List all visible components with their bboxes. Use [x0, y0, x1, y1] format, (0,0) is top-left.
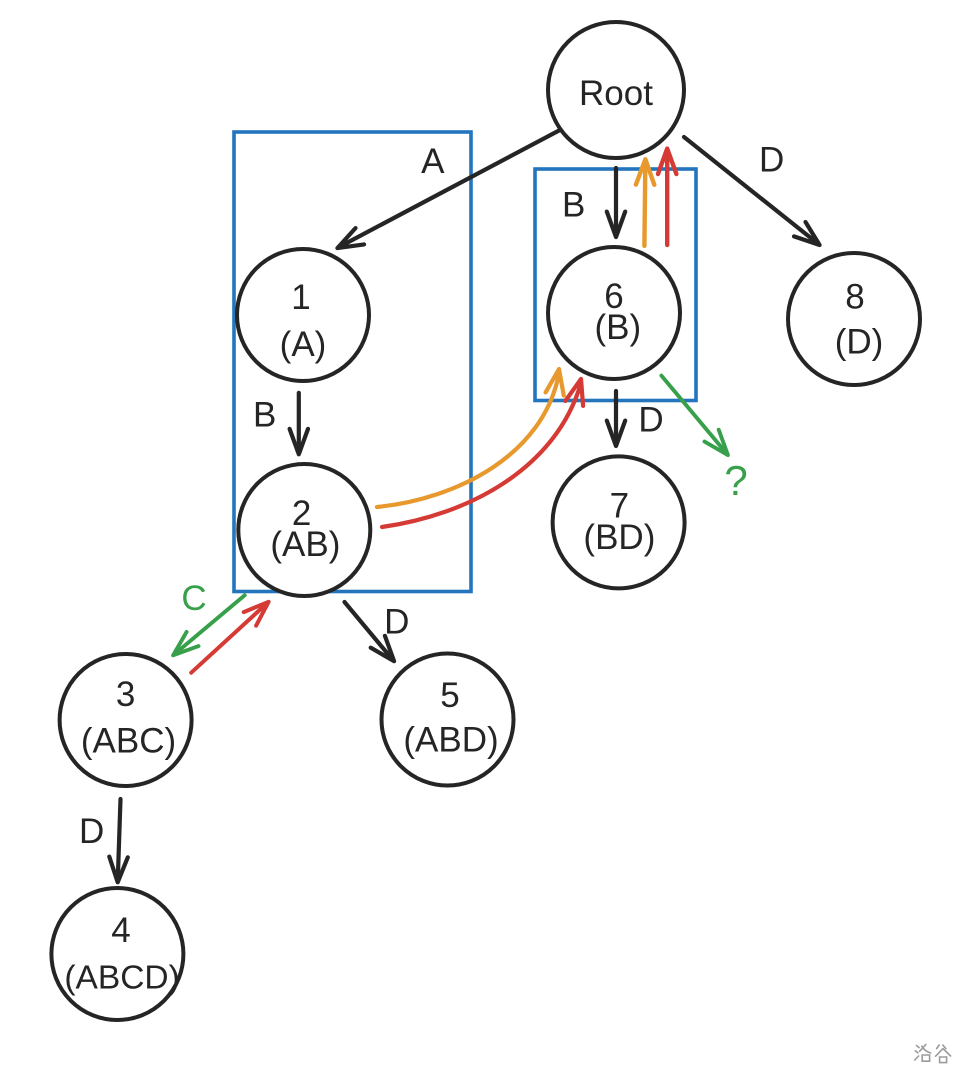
svg-text:Root: Root	[579, 74, 653, 113]
svg-text:8: 8	[845, 278, 864, 317]
svg-text:D: D	[638, 400, 663, 439]
watermark luogu characters	[915, 1045, 951, 1063]
wire orange arrow 6 up to Root	[636, 159, 654, 246]
blue group box around node 6	[535, 169, 696, 401]
wire edge 1 to 2 labelled B	[290, 393, 308, 454]
node 8 (D)	[788, 253, 920, 385]
svg-text:(B): (B)	[594, 308, 641, 347]
svg-text:?: ?	[724, 457, 747, 504]
wire edge 3 to 4 labelled D	[109, 799, 128, 882]
node 6 (B)	[548, 247, 680, 379]
svg-text:3: 3	[116, 675, 135, 714]
svg-text:(BD): (BD)	[583, 518, 655, 557]
node Root	[548, 22, 684, 158]
gu character	[936, 1045, 951, 1063]
wire orange curved suffix link 2 to 6	[377, 369, 564, 507]
svg-text:(ABD): (ABD)	[403, 721, 498, 760]
wire edge Root to 6 labelled B	[607, 168, 625, 237]
wire edge 6 to 7 labelled D	[607, 391, 625, 446]
blue group box around nodes 1 and 2	[234, 132, 471, 592]
svg-text:C: C	[181, 579, 206, 618]
wire green edge 2 to 3 labelled C	[173, 595, 245, 655]
node 2 (AB)	[238, 464, 370, 596]
wire edge Root to 1 labelled A	[337, 130, 560, 248]
wire red edge 3 to 2	[191, 602, 268, 673]
wire red curved link 2 to 6	[382, 379, 583, 527]
node 4 (ABCD)	[51, 888, 183, 1020]
svg-text:5: 5	[440, 676, 459, 715]
svg-text:(AB): (AB)	[270, 525, 340, 564]
wire green arrow 6 to question mark	[661, 376, 728, 456]
svg-text:4: 4	[111, 911, 130, 950]
wire edge 2 to 5 labelled D	[345, 602, 395, 661]
svg-text:D: D	[759, 140, 784, 179]
svg-text:(D): (D)	[835, 323, 884, 362]
luo character	[915, 1046, 919, 1061]
node 5 (ABD)	[382, 654, 514, 786]
svg-text:D: D	[384, 602, 409, 641]
node 1 (A)	[237, 249, 369, 381]
wire edge Root to 8 labelled D	[684, 137, 820, 245]
svg-text:D: D	[79, 812, 104, 851]
svg-text:A: A	[421, 142, 445, 181]
wire red arrow 6 up to Root	[658, 149, 676, 245]
svg-text:(ABCD): (ABCD)	[64, 960, 179, 997]
node 7 (BD)	[553, 456, 685, 588]
svg-text:(ABC): (ABC)	[81, 722, 176, 761]
svg-text:B: B	[253, 395, 276, 434]
node 3 (ABC)	[60, 654, 192, 786]
svg-text:1: 1	[291, 278, 310, 317]
svg-text:(A): (A)	[280, 325, 327, 364]
svg-text:B: B	[562, 186, 585, 225]
